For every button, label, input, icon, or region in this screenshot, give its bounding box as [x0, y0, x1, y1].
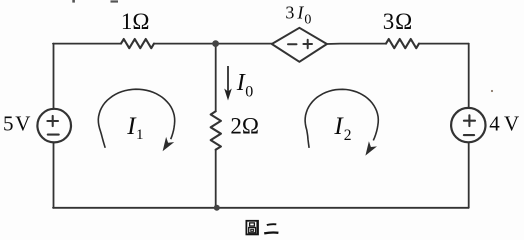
svg-text:4 V: 4 V [489, 111, 519, 135]
wire top-left horizontal [53, 43, 121, 45]
wire bottom horizontal [53, 207, 469, 209]
caption CJK "tu" (figure) character drawn as strokes [246, 221, 258, 235]
dependent source 3I0 diamond [272, 28, 327, 62]
resistor R1 1ohm zigzag [121, 39, 154, 48]
minus sign in 5V source [48, 134, 59, 136]
caption CJK "er" (two) character drawn as strokes [264, 224, 278, 233]
resistor R3 2ohm vertical zigzag [211, 111, 221, 149]
wire diamond to R2 [327, 43, 386, 45]
artifact cropped text remnant right [111, 0, 119, 2]
wire top-middle horizontal [154, 43, 272, 45]
mesh loop arrow I2 [305, 89, 378, 155]
svg-text:I1: I1 [126, 113, 143, 143]
node B bottom junction dot [214, 205, 220, 211]
wire middle vertical upper [215, 44, 217, 112]
resistor R2 3ohm zigzag [386, 39, 419, 48]
current I0 arrow [224, 66, 232, 101]
plus sign inside diamond [303, 40, 312, 49]
wire left vertical lower [53, 142, 55, 207]
artifact scan speck [491, 90, 493, 92]
mesh loop arrow I1 [98, 89, 174, 151]
svg-text:I0: I0 [236, 70, 254, 101]
voltage source V1 5V circle [37, 109, 71, 143]
wire left vertical upper [53, 44, 55, 109]
artifact cropped text remnant left [72, 0, 75, 3]
minus sign inside diamond [288, 43, 297, 45]
voltage source V2 4V circle [451, 108, 485, 142]
wire top-right horizontal [419, 43, 469, 45]
svg-text:5 V: 5 V [3, 112, 30, 136]
node A top junction dot [212, 40, 219, 47]
svg-text:I2: I2 [333, 113, 351, 144]
svg-text:2Ω: 2Ω [230, 113, 259, 138]
plus sign in 4V source [464, 115, 475, 126]
svg-text:3Ω: 3Ω [383, 9, 413, 34]
minus sign in 4V source [464, 134, 474, 136]
svg-text:1Ω: 1Ω [121, 9, 150, 34]
wire middle vertical lower [215, 150, 217, 208]
wire right vertical upper [468, 44, 470, 108]
plus sign in 5V source [47, 116, 58, 126]
wire right vertical lower [468, 142, 470, 207]
svg-text:3I0: 3I0 [285, 3, 311, 28]
